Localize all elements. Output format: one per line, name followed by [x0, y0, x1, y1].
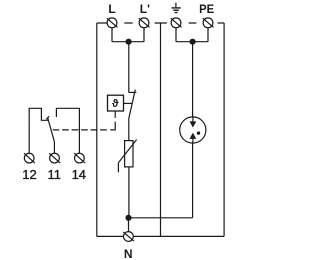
- svg-text:11: 11: [48, 167, 62, 182]
- svg-text:N: N: [124, 247, 133, 260]
- svg-text:L': L': [140, 2, 150, 16]
- svg-text:12: 12: [22, 167, 36, 182]
- svg-text:ϑ: ϑ: [112, 98, 119, 110]
- svg-text:L: L: [108, 2, 115, 16]
- svg-text:14: 14: [72, 167, 86, 182]
- svg-text:PE: PE: [199, 2, 214, 16]
